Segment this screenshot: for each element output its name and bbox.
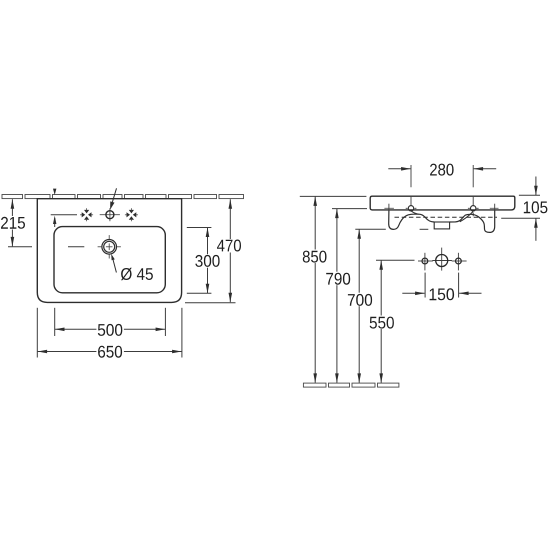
dimension 550 — [376, 259, 415, 261]
label 790 — [326, 273, 350, 285]
tap hole group: right cross — [452, 253, 467, 271]
wall hatch bar (top view) — [2, 195, 244, 199]
label 700 — [348, 294, 372, 306]
dimension 300 — [187, 227, 212, 229]
label 105 — [524, 201, 548, 213]
dimension 470 — [229, 199, 231, 302]
left bracket / trap outline — [389, 211, 435, 230]
label 550 — [370, 317, 394, 329]
label 215 — [1, 217, 25, 229]
drain centerline dashes (left) — [8, 246, 32, 248]
drain hole (double circle) — [102, 240, 117, 255]
dimension 700 — [355, 228, 386, 230]
basin outer outline — [37, 199, 181, 303]
small arrow at wall to basin rear (down) — [53, 189, 56, 195]
right fixing screw — [471, 206, 476, 211]
leader to drain — [113, 259, 117, 273]
drain outlet box — [434, 222, 449, 229]
label O_45 — [121, 268, 153, 281]
dimension 105 — [519, 194, 540, 196]
optional hole cross mark left — [82, 210, 92, 220]
hanger plus mark left — [384, 207, 394, 209]
dimension 850 — [300, 195, 367, 197]
dimension 150 — [424, 273, 426, 298]
inner bowl outline — [54, 227, 165, 293]
trap inlet curve from right screw — [460, 212, 473, 222]
hanger plus mark right — [490, 207, 499, 209]
label 650 — [98, 346, 122, 358]
leader to tap hole — [112, 188, 116, 202]
optional hole cross mark right — [127, 210, 137, 220]
right bracket / trap outline — [450, 211, 495, 233]
label 280 — [430, 164, 454, 176]
label 500 — [98, 324, 123, 336]
label 300 — [195, 255, 219, 267]
dimension 790 — [332, 208, 367, 210]
label 150 — [430, 288, 455, 300]
drain centermark hairlines — [98, 235, 121, 258]
floor hatch bar — [303, 383, 399, 387]
dimension 215 — [11, 199, 13, 246]
label 470 — [217, 240, 241, 252]
tap hole (circle with centermark) — [100, 208, 120, 221]
dimension 650 — [36, 308, 38, 358]
dimension 280 — [388, 168, 410, 170]
tap hole group: center hole — [432, 248, 452, 271]
fixing hole centerlines (280 extension lines) — [410, 165, 412, 187]
small arrow to tap centerline (up) — [54, 218, 56, 227]
left fixing screw — [408, 206, 413, 211]
trap hidden dashed line — [395, 216, 498, 218]
tap hole group: left cross — [418, 253, 433, 271]
ceramic slab outline — [370, 196, 515, 210]
dimension 500 — [54, 308, 56, 336]
trap inlet curve from left screw — [411, 211, 418, 214]
label 850 — [303, 251, 327, 263]
tap hole centerline dash — [51, 214, 77, 216]
